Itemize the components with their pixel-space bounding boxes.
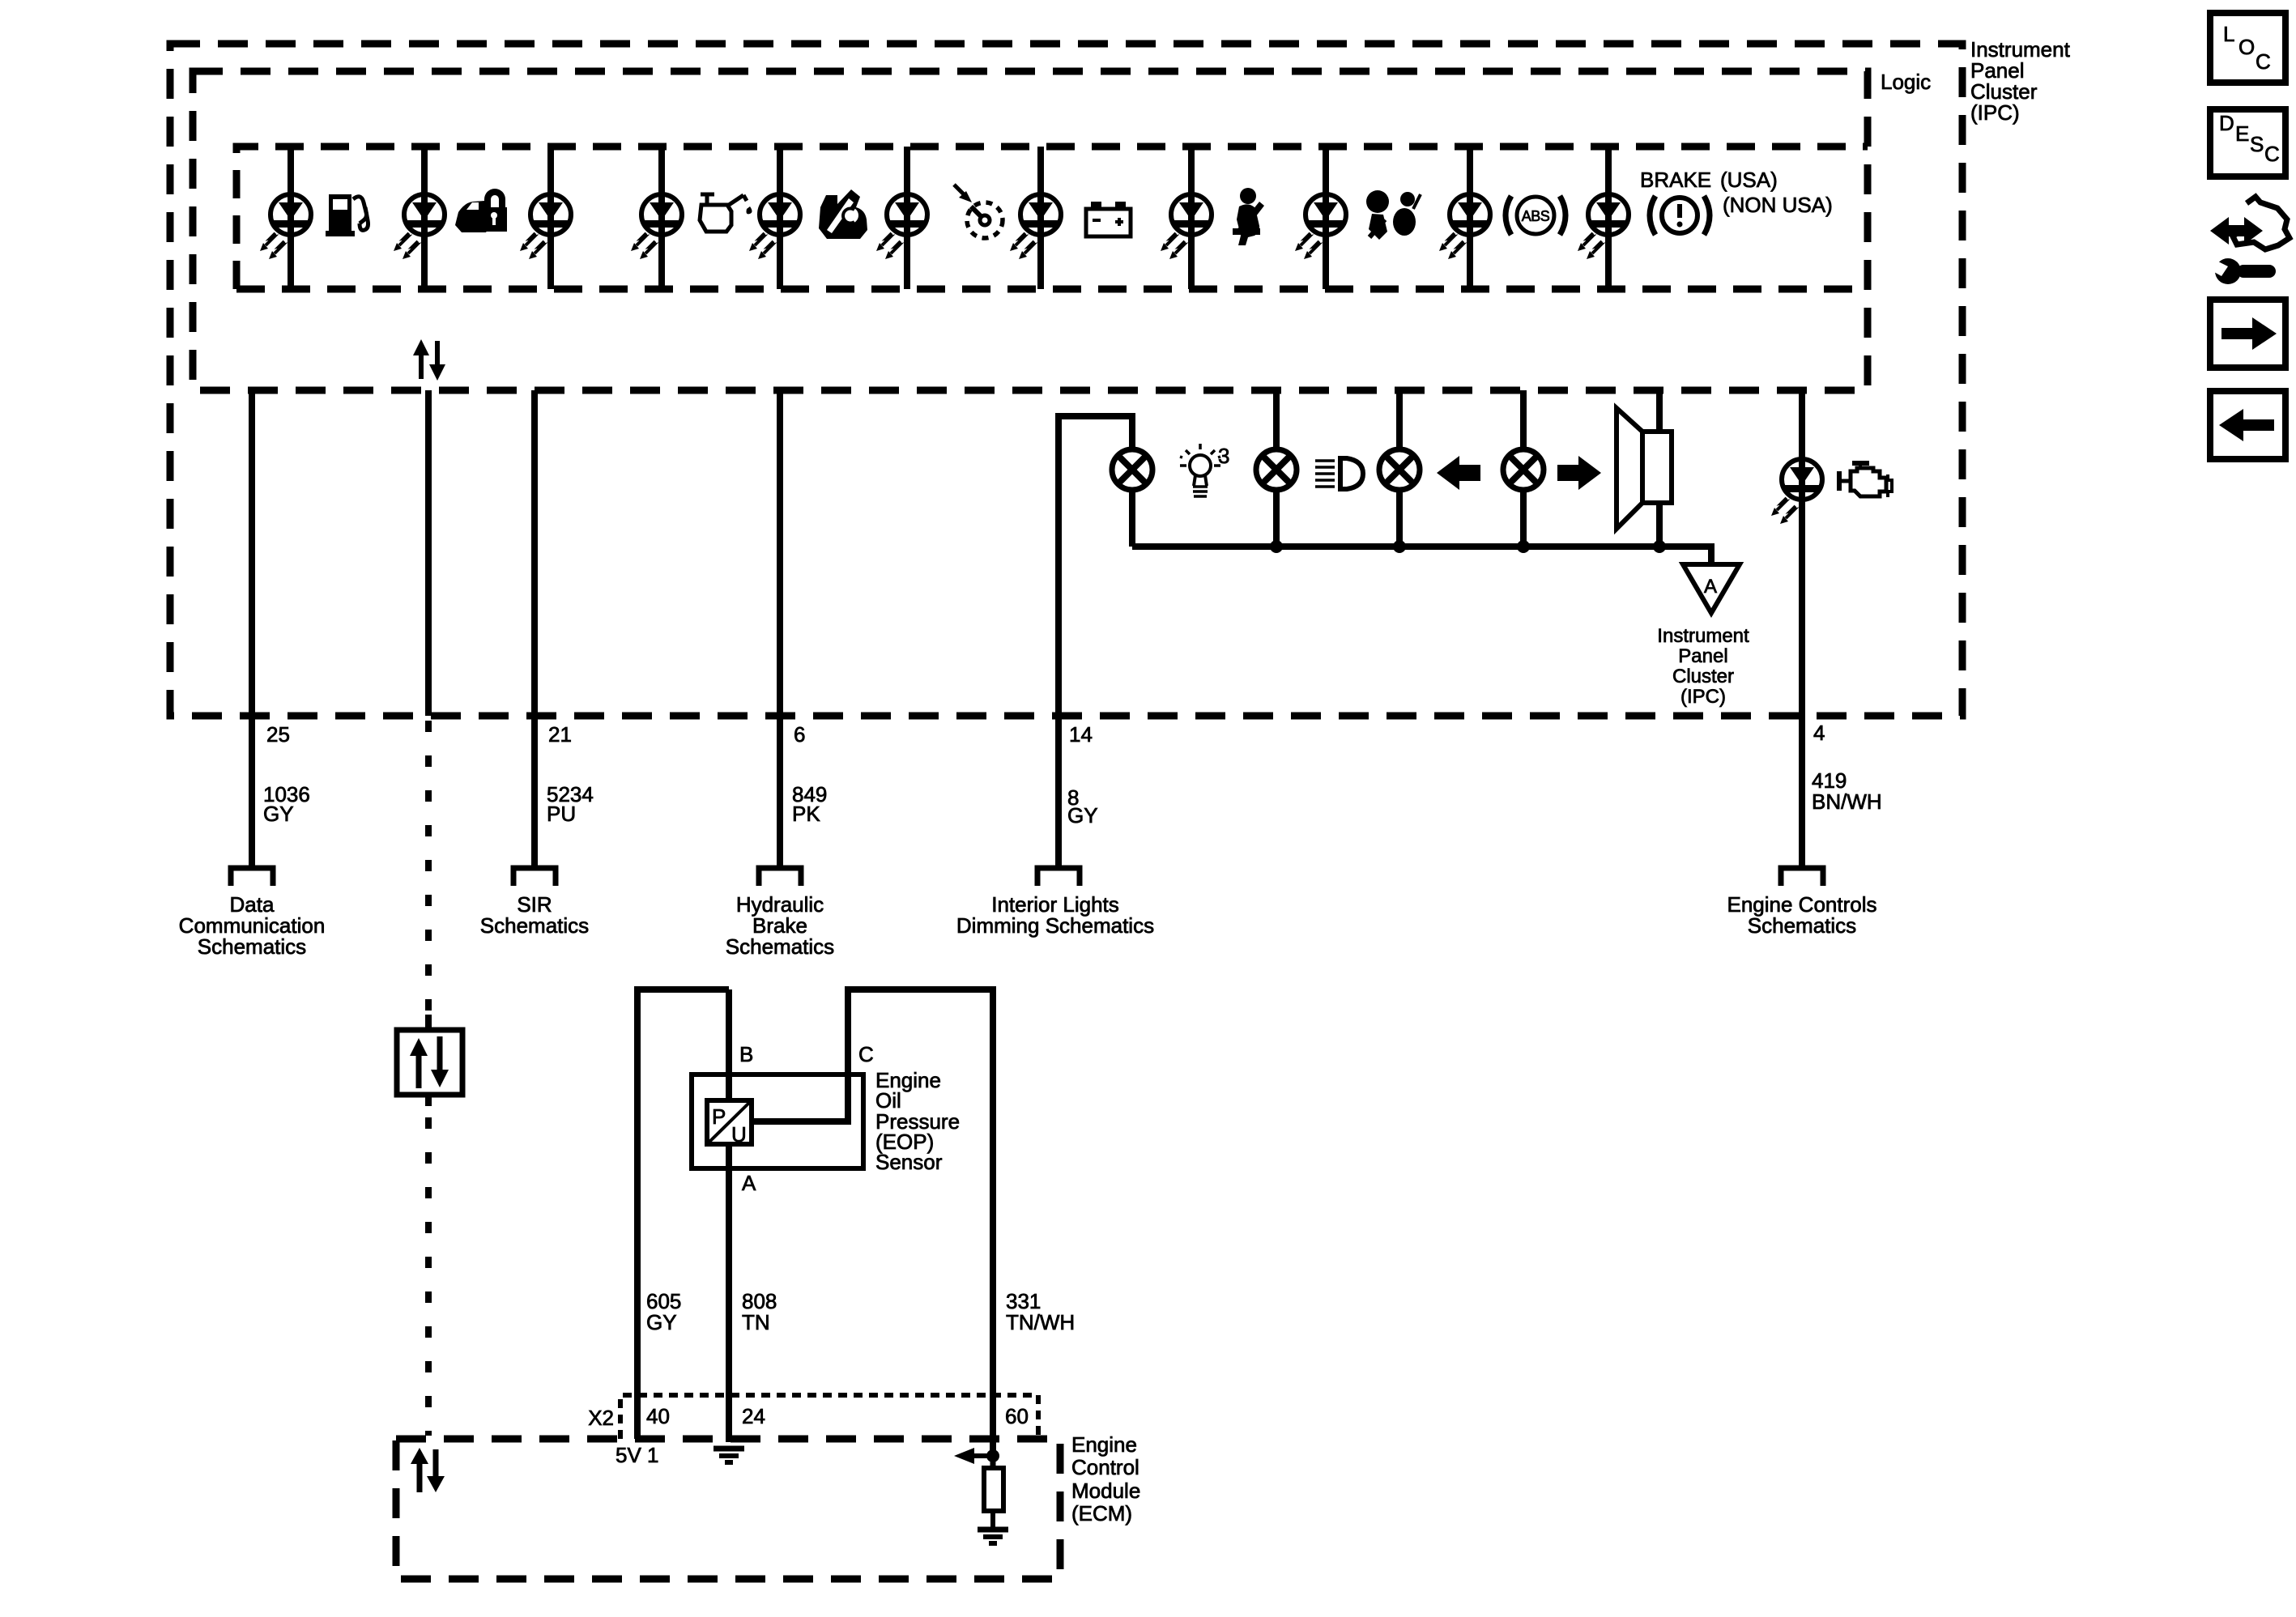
wire 808 TN pin B to A bbox=[726, 989, 732, 1442]
wire bus interior lamps bbox=[1132, 543, 1659, 550]
LED indicator lamp 1 bbox=[260, 194, 311, 259]
LED indicator lamp 7 bbox=[1010, 194, 1061, 259]
svg-text:60: 60 bbox=[1005, 1404, 1029, 1428]
wire 1036 GY bbox=[249, 390, 255, 866]
wire bulb3 bbox=[1396, 390, 1403, 547]
arrows up/down at logic edge bbox=[413, 339, 445, 381]
svg-text:6: 6 bbox=[794, 722, 805, 747]
serial data arrow box bbox=[397, 1030, 462, 1095]
bulb lamp 2 bbox=[1256, 449, 1297, 490]
ground at pin 24 bbox=[714, 1449, 744, 1462]
triangle connector A bbox=[1683, 564, 1740, 613]
LED indicator lamp 2 bbox=[394, 194, 445, 259]
wire 5234 PU bbox=[531, 390, 538, 866]
wire bulb1 lower bbox=[1129, 491, 1135, 547]
icon component locator (arrow part wrench) bbox=[2207, 197, 2290, 284]
icon dimming lamp with 3 bbox=[1180, 444, 1229, 496]
icon fuel pump bbox=[326, 194, 368, 236]
LED indicator lamp 8 bbox=[1161, 194, 1212, 259]
wire serial data solid bbox=[425, 390, 432, 716]
svg-text:O: O bbox=[2238, 35, 2255, 59]
lamp row dashed box bbox=[236, 147, 1868, 289]
wire to triangle A bbox=[1659, 547, 1711, 564]
arrow 5V reference left bbox=[954, 1448, 993, 1464]
svg-text:Schematics: Schematics bbox=[726, 934, 834, 959]
svg-text:3: 3 bbox=[1218, 444, 1229, 468]
junction dot 3 bbox=[1517, 540, 1530, 553]
wire serial data dashed lower bbox=[425, 1117, 432, 1436]
LED indicator lamp 11 bbox=[1578, 194, 1629, 259]
wire interior lamps feed elbow bbox=[1059, 416, 1132, 866]
forward arrow box bbox=[2210, 300, 2285, 368]
bulb lamp 4 bbox=[1503, 449, 1544, 490]
svg-text:ABS: ABS bbox=[1522, 208, 1550, 224]
junction dot 2 bbox=[1393, 540, 1406, 553]
LED indicator lamp 6 bbox=[876, 194, 927, 259]
svg-text:21: 21 bbox=[548, 722, 572, 747]
bulb lamp 3 bbox=[1379, 449, 1420, 490]
svg-text:5V 1: 5V 1 bbox=[616, 1443, 659, 1467]
svg-text:B: B bbox=[739, 1042, 753, 1066]
ground at resistor bbox=[978, 1530, 1008, 1543]
connector X2 dotted box bbox=[620, 1395, 1038, 1439]
icon engine (MIL) bbox=[1837, 461, 1892, 497]
svg-text:(ECM): (ECM) bbox=[1071, 1501, 1132, 1526]
svg-text:Schematics: Schematics bbox=[480, 913, 589, 938]
IPC Instrument Panel Cluster dashed box bbox=[170, 44, 1962, 716]
svg-text:Module: Module bbox=[1071, 1479, 1140, 1503]
icon speedometer bbox=[954, 185, 1003, 238]
LOC box bbox=[2210, 13, 2285, 83]
junction dot pin 60 bbox=[986, 1449, 999, 1462]
wire 849 PK bbox=[777, 390, 783, 866]
icon security (vehicle with lock) bbox=[455, 189, 507, 232]
icon seat belt bbox=[1233, 188, 1264, 245]
svg-text:(IPC): (IPC) bbox=[1970, 100, 2020, 125]
svg-text:U: U bbox=[731, 1122, 747, 1147]
wire lamp 9 bbox=[1323, 147, 1329, 289]
LED indicator lamp 4 bbox=[631, 194, 682, 259]
connector T wire 14 bbox=[1037, 868, 1080, 886]
connector T wire 25 bbox=[231, 868, 273, 886]
svg-text:TN: TN bbox=[742, 1310, 770, 1334]
icon right turn arrow bbox=[1557, 456, 1601, 490]
svg-text:L: L bbox=[2223, 22, 2234, 46]
svg-text:C: C bbox=[2256, 49, 2271, 74]
wire lamp 4 bbox=[658, 147, 665, 289]
svg-text:Instrument: Instrument bbox=[1657, 625, 1749, 647]
svg-text:Sensor: Sensor bbox=[875, 1150, 943, 1174]
Logic dashed box bbox=[193, 71, 1868, 390]
LED indicator lamp 9 bbox=[1295, 194, 1346, 259]
svg-text:40: 40 bbox=[646, 1404, 670, 1428]
connector T wire 4 bbox=[1781, 868, 1823, 886]
icon battery bbox=[1086, 202, 1131, 236]
svg-text:P: P bbox=[712, 1104, 726, 1129]
icon engine oil pressure can bbox=[700, 194, 752, 232]
svg-text:PU: PU bbox=[547, 802, 576, 826]
resistor bbox=[984, 1468, 1003, 1511]
icon airbag bbox=[1366, 190, 1421, 240]
DESC box bbox=[2210, 109, 2285, 177]
wire serial data dashed upper bbox=[425, 721, 432, 1015]
svg-text:Dimming Schematics: Dimming Schematics bbox=[956, 913, 1154, 938]
icon brake warning bbox=[1650, 196, 1710, 235]
LED indicator lamp 10 bbox=[1439, 194, 1490, 259]
back arrow box bbox=[2210, 391, 2285, 459]
svg-text:D: D bbox=[2219, 111, 2234, 135]
ECM arrows up/down bbox=[411, 1448, 445, 1492]
icon left turn arrow bbox=[1437, 456, 1480, 490]
wire lamp 6 bbox=[904, 147, 910, 289]
connector T wire 6 bbox=[759, 868, 801, 886]
svg-text:Cluster: Cluster bbox=[1672, 666, 1734, 687]
wire speaker bottom bbox=[1656, 503, 1663, 547]
svg-text:4: 4 bbox=[1813, 721, 1825, 745]
svg-text:TN/WH: TN/WH bbox=[1006, 1310, 1075, 1334]
wire stub above arrow box bbox=[425, 1015, 432, 1030]
connector T wire 21 bbox=[513, 868, 556, 886]
wire lamp 3 bbox=[547, 147, 554, 289]
svg-text:PK: PK bbox=[792, 802, 820, 826]
svg-text:S: S bbox=[2250, 132, 2264, 156]
wire lamp 7 bbox=[1037, 147, 1044, 289]
wire speaker top bbox=[1656, 390, 1663, 432]
pressure transducer P/U bbox=[707, 1100, 752, 1147]
wire bulb2 bbox=[1273, 390, 1280, 547]
wire lamp 11 bbox=[1605, 147, 1612, 289]
wire 331 TN/WH loop bbox=[752, 989, 993, 1456]
svg-text:(USA): (USA) bbox=[1720, 168, 1778, 192]
svg-text:Schematics: Schematics bbox=[198, 934, 306, 959]
svg-text:(NON USA): (NON USA) bbox=[1723, 193, 1833, 217]
svg-text:GY: GY bbox=[263, 802, 294, 826]
speaker bbox=[1617, 408, 1672, 529]
icon traction control bbox=[819, 189, 867, 239]
svg-text:BN/WH: BN/WH bbox=[1812, 789, 1882, 814]
svg-text:25: 25 bbox=[266, 722, 290, 747]
svg-text:(IPC): (IPC) bbox=[1680, 686, 1726, 708]
svg-text:A: A bbox=[1704, 576, 1717, 598]
svg-text:Panel: Panel bbox=[1678, 645, 1727, 667]
ECM dashed box bbox=[396, 1439, 1060, 1579]
svg-text:X2: X2 bbox=[588, 1406, 614, 1430]
wire lamp 1 bbox=[288, 147, 294, 289]
svg-text:E: E bbox=[2235, 121, 2249, 146]
svg-text:BRAKE: BRAKE bbox=[1640, 168, 1711, 192]
EOP sensor box bbox=[692, 1074, 863, 1168]
svg-text:Engine: Engine bbox=[1071, 1432, 1137, 1457]
wire lamp 2 bbox=[421, 147, 428, 289]
wire bulb4 bbox=[1520, 390, 1527, 547]
icon headlamp bbox=[1315, 458, 1363, 489]
svg-text:C: C bbox=[2264, 142, 2280, 166]
wire 605 GY loop bbox=[637, 989, 729, 1439]
svg-text:14: 14 bbox=[1069, 722, 1093, 747]
icon ABS bbox=[1506, 196, 1565, 235]
LED engine MIL bbox=[1771, 459, 1822, 524]
LED indicator lamp 5 bbox=[749, 194, 800, 259]
svg-text:A: A bbox=[742, 1171, 756, 1195]
svg-text:Schematics: Schematics bbox=[1748, 913, 1856, 938]
wire stub below arrow box bbox=[425, 1095, 432, 1106]
wire lamp 5 bbox=[777, 147, 783, 289]
svg-text:24: 24 bbox=[742, 1404, 765, 1428]
svg-text:C: C bbox=[858, 1042, 874, 1066]
junction dot 4 bbox=[1653, 540, 1666, 553]
wire 419 upper bbox=[1799, 390, 1805, 866]
wire resistor to ground bbox=[990, 1511, 995, 1529]
wire dot to resistor bbox=[990, 1456, 996, 1468]
svg-text:Logic: Logic bbox=[1881, 70, 1931, 94]
svg-text:GY: GY bbox=[646, 1310, 677, 1334]
svg-text:GY: GY bbox=[1067, 803, 1098, 828]
bulb lamp 1 bbox=[1112, 449, 1152, 490]
svg-text:Control: Control bbox=[1071, 1455, 1139, 1479]
LED indicator lamp 3 bbox=[520, 194, 571, 259]
wire lamp 10 bbox=[1467, 147, 1473, 289]
wire lamp 8 bbox=[1188, 147, 1195, 289]
junction dot 1 bbox=[1270, 540, 1283, 553]
